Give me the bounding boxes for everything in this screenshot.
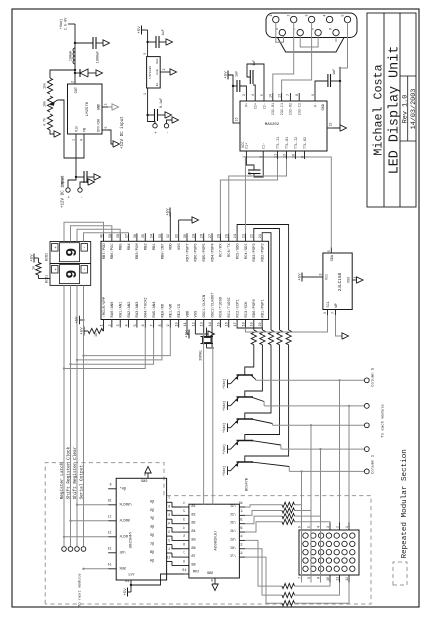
- transistor Q3 PNP column driver: [237, 418, 254, 420]
- svg-text:/3C: /3C: [230, 521, 236, 526]
- svg-text:7: 7: [286, 94, 290, 96]
- svg-text:TTL-O1: TTL-O1: [286, 137, 290, 149]
- svg-text:26: 26: [217, 234, 221, 238]
- wire U4 SDA to U1 pin 23: [245, 157, 331, 248]
- capacitor C8 0.1uF: [148, 114, 155, 116]
- wire column 3 vertical drop: [273, 424, 365, 426]
- svg-text:29: 29: [192, 234, 196, 238]
- transistor Q5 PNP column driver: [237, 461, 254, 463]
- U3 input pin 7 7B: [182, 556, 189, 558]
- U2 pin 8 GND: [147, 473, 149, 478]
- svg-text:4: 4: [183, 526, 185, 530]
- wire U3 output 2C to row resistor: [245, 511, 282, 516]
- ground at U5 GND: [340, 125, 347, 131]
- svg-text:1: 1: [72, 139, 76, 141]
- resistor R14 matrix row 5: [282, 584, 295, 589]
- wire U5 VCC to +5V rail: [228, 75, 234, 123]
- wire U2 QF to U3 3B: [172, 519, 182, 524]
- wire control row 4 to U1 pin 9: [84, 328, 171, 356]
- svg-text:RD4/PSP4: RD4/PSP4: [210, 243, 215, 262]
- LED matrix dot r5c2: [334, 558, 339, 563]
- LED matrix dot r7c5: [350, 533, 355, 538]
- resistor R10 matrix row 1: [282, 502, 295, 507]
- svg-text:QG: QG: [150, 509, 154, 513]
- LED matrix dot r2c3: [311, 550, 316, 555]
- svg-text:COM: COM: [193, 571, 199, 575]
- svg-text:11: 11: [335, 577, 339, 581]
- svg-text:RC2/CCP1: RC2/CCP1: [235, 299, 240, 318]
- svg-text:RB2: RB2: [145, 243, 149, 251]
- U4 pin 5 SDA: [330, 248, 332, 254]
- U1 pin 12 VSS: [194, 320, 196, 328]
- svg-text:3: 3: [259, 156, 263, 158]
- svg-text:/4C: /4C: [230, 529, 236, 534]
- svg-text:9: 9: [329, 28, 333, 30]
- wire control row 2 left run: [70, 285, 72, 546]
- svg-text:Serial Output: Serial Output: [79, 465, 84, 500]
- wire resistor to matrix pin 5: [295, 511, 312, 523]
- svg-text:16: 16: [239, 519, 243, 523]
- resistor R1 base: [251, 330, 256, 345]
- U5 pin 16 VCC: [234, 122, 240, 124]
- power flag +Vadj at Q2: [227, 401, 229, 410]
- svg-text:+Vadj: +Vadj: [59, 19, 64, 30]
- wire wiper to U6 FB: [58, 100, 85, 158]
- wire U6 OUT rail: [74, 24, 76, 76]
- terminal circle to-next-module 3: [75, 547, 80, 552]
- wire column 1 branch to matrix: [301, 471, 303, 582]
- display BCD1 digit box: [60, 265, 80, 284]
- U3 output pin 15 /4C: [239, 531, 245, 533]
- title block rev/date divider: [407, 76, 409, 141]
- U2 pin 13 /OE: [108, 552, 116, 554]
- svg-text:0.1uF: 0.1uF: [160, 98, 164, 108]
- svg-text:/OE: /OE: [120, 550, 126, 555]
- svg-text:18: 18: [239, 502, 243, 506]
- capacitor C5 1000uF: [75, 42, 93, 44]
- wire resistor to matrix pin 3: [295, 521, 331, 524]
- U5 pin 13 232-I1: [281, 93, 283, 101]
- LED matrix dot r6c2: [342, 558, 347, 563]
- svg-text:V-: V-: [314, 103, 318, 107]
- terminal circle Column 3: [364, 423, 369, 428]
- svg-text:5: 5: [168, 514, 170, 518]
- capacitor C1 1uF at U5 C1+/C1-: [246, 159, 254, 170]
- svg-text:GND: GND: [141, 480, 147, 484]
- svg-text:RA1/AN1: RA1/AN1: [119, 301, 124, 318]
- wire U3 right edge run A: [203, 334, 205, 504]
- X1 pin 6: [279, 29, 285, 35]
- svg-text:RC7/RX: RC7/RX: [219, 243, 224, 257]
- wire Q2 collector to column drop: [263, 402, 265, 406]
- U2 output pin 1 QB: [167, 552, 172, 554]
- matrix pin 11 left: [339, 575, 341, 583]
- U3 input pin 6 6B: [182, 548, 189, 550]
- svg-text:RD1/PSP1: RD1/PSP1: [260, 299, 265, 318]
- shift register U2 74HC595 body: [116, 478, 166, 580]
- svg-text:RB4: RB4: [128, 243, 132, 251]
- wire Q2 base to resistor: [245, 345, 263, 397]
- svg-text:/6C: /6C: [230, 546, 236, 551]
- transistor Q4 PNP column driver: [237, 440, 254, 442]
- svg-text:Com: Com: [155, 69, 159, 75]
- svg-text:10: 10: [326, 577, 330, 581]
- wire R2 to U1 pin 19: [254, 328, 263, 331]
- LED matrix dot r5c5: [334, 533, 339, 538]
- svg-text:4B: 4B: [191, 530, 195, 534]
- LED matrix dot r5c4: [334, 541, 339, 546]
- LED matrix dot r5c1: [334, 566, 339, 571]
- U6 pin 1 Vin: [75, 134, 77, 142]
- resistor R7 1k display supply: [36, 262, 41, 275]
- svg-text:9: 9: [316, 577, 320, 579]
- svg-text:1: 1: [242, 156, 246, 158]
- svg-text:To each module: To each module: [381, 404, 386, 438]
- svg-text:RC4/SDI: RC4/SDI: [244, 243, 249, 259]
- U3 input pin 2 2B: [182, 514, 189, 516]
- power flag +5V at U7 out: [141, 26, 143, 35]
- U1 pin 29 RD6/PSP6: [194, 233, 196, 241]
- X1 pin 8: [315, 29, 321, 35]
- svg-text:2: 2: [287, 14, 291, 16]
- svg-text:RD0/PSP0: RD0/PSP0: [252, 299, 257, 318]
- svg-text:232-I2: 232-I2: [299, 103, 303, 115]
- wire U3 output 1C to row resistor: [245, 505, 282, 507]
- svg-text:C1-: C1-: [263, 143, 267, 149]
- wire X1 pin2 to U5 232-O1: [273, 22, 294, 93]
- svg-text:1uF: 1uF: [253, 60, 257, 66]
- svg-text:+5V: +5V: [124, 588, 128, 596]
- svg-text:12: 12: [192, 322, 196, 326]
- wire display data row 1 to U1 pin 40: [64, 222, 104, 241]
- LED matrix DIS1 5x7 body: [299, 530, 359, 575]
- U5 pin 4 C2+: [254, 93, 256, 101]
- U5 pin 2 V+: [245, 93, 247, 101]
- wire control row 3 to U1 pin 8: [77, 328, 162, 360]
- svg-text:RB6/PGC: RB6/PGC: [110, 243, 115, 260]
- power label +Vadj output: [68, 23, 75, 25]
- svg-text:GND: GND: [207, 572, 213, 576]
- terminal circle to-next-module 1: [62, 547, 67, 552]
- matrix pin 3 right: [329, 523, 331, 531]
- U3 output pin 16 /3C: [239, 523, 245, 525]
- wire column 5 vertical drop: [256, 379, 365, 381]
- resistor R2 base: [260, 330, 265, 345]
- svg-text:8B: 8B: [191, 563, 195, 567]
- svg-text:4: 4: [125, 324, 129, 326]
- wire 1k to +5V flag: [37, 258, 39, 262]
- wire X1 link pin1 to pin6: [276, 22, 284, 42]
- ground at U1 VSS pin 31: [178, 220, 180, 233]
- resistor R12 matrix row 3: [282, 514, 295, 519]
- svg-text:QC: QC: [150, 543, 154, 547]
- matrix pin 7 left: [301, 575, 303, 583]
- terminal +12V minus 78L05: [164, 124, 168, 128]
- LED matrix dot r6c5: [342, 533, 347, 538]
- svg-text:3: 3: [117, 324, 121, 326]
- X1 pin 5: [344, 16, 350, 22]
- svg-text:18: 18: [242, 322, 246, 326]
- svg-text:RA4/T0CKI: RA4/T0CKI: [144, 297, 149, 318]
- svg-text:13: 13: [108, 546, 112, 550]
- svg-text:+5V: +5V: [298, 273, 302, 281]
- ground at U2 GND: [145, 467, 151, 474]
- power flag +5V at U2 VCC: [130, 586, 132, 593]
- svg-text:VSS: VSS: [195, 310, 199, 318]
- svg-text:17: 17: [239, 510, 243, 514]
- svg-text:Vin: Vin: [74, 126, 79, 132]
- svg-text:1000uF: 1000uF: [97, 51, 101, 63]
- svg-text:15: 15: [166, 556, 170, 560]
- U2 pin 14 SER: [108, 568, 116, 570]
- svg-text:TTL-I2: TTL-I2: [295, 137, 299, 149]
- U5 pin 1 C1+: [245, 151, 247, 159]
- matrix pin 10 left: [329, 575, 331, 583]
- U5 pin 3 C1-: [262, 151, 264, 159]
- svg-text:Rev 1.0: Rev 1.0: [402, 95, 410, 124]
- U1 pin 20 RD1/PSP1: [261, 320, 263, 328]
- U1 pin 22 RD3/PSP3: [253, 233, 255, 241]
- wire control row 1 to U1 pin 6: [64, 328, 145, 369]
- svg-text:QH*: QH*: [120, 486, 126, 491]
- svg-text:RB3/PGM: RB3/PGM: [135, 243, 140, 260]
- terminal +12V plus LM2576: [66, 188, 70, 192]
- U1 pin 21 RD2/PSP2: [261, 233, 263, 241]
- wire U2 QC to U3 6B: [172, 545, 182, 549]
- svg-text:12: 12: [239, 552, 243, 556]
- svg-text:16: 16: [226, 322, 230, 326]
- U5 pin 15 GND: [327, 127, 333, 129]
- svg-text:+12V DC input: +12V DC input: [61, 175, 66, 208]
- wire column 5 branch to matrix: [339, 380, 341, 522]
- capacitor C4 1uF at U5 V-: [315, 81, 328, 93]
- power flag +Vadj at Q3: [227, 423, 229, 432]
- svg-text:19: 19: [251, 322, 255, 326]
- wire X1 pin3 to U5 232-I1: [282, 22, 312, 93]
- svg-text:7B: 7B: [191, 555, 195, 559]
- power flag +5V at MCLR pullup: [83, 327, 85, 336]
- svg-text:-: -: [83, 268, 88, 271]
- U3 input pin 1 1B: [182, 506, 189, 508]
- svg-text:11: 11: [184, 322, 188, 326]
- terminal +12V minus LM2576: [78, 188, 82, 192]
- svg-text:SRCLK: SRCLK: [119, 519, 130, 523]
- wire U3 right edge run B: [212, 348, 214, 504]
- wire X1 pin9 stub: [335, 36, 337, 42]
- U5 pin 12 TTL-O1: [286, 151, 288, 159]
- svg-text:RD7/PSP7: RD7/PSP7: [185, 243, 190, 261]
- svg-text:1: 1: [269, 14, 273, 16]
- U1 pin 25 RC6/TX: [228, 233, 230, 241]
- svg-text:VSS: VSS: [178, 243, 182, 251]
- U1 pin 19 RD0/PSP0: [253, 320, 255, 328]
- svg-text:ULN2803A: ULN2803A: [215, 531, 219, 551]
- wire minus to ground 78L05: [167, 120, 173, 124]
- U2 output pin 5 QF: [167, 518, 172, 520]
- svg-text:OUT: OUT: [75, 87, 79, 93]
- wire Q4 collector to column drop: [280, 445, 282, 449]
- wire divider to output rail: [50, 70, 75, 78]
- svg-text:1: 1: [100, 324, 104, 326]
- U3 input pin 8 8B: [182, 564, 189, 566]
- svg-text:7: 7: [151, 324, 155, 326]
- wire U3 output 6C to row resistor: [245, 549, 282, 595]
- svg-text:15: 15: [217, 322, 221, 326]
- svg-text:13: 13: [201, 322, 205, 326]
- X1 pin 1: [273, 16, 279, 22]
- U3 output pin 14 /5C: [239, 539, 245, 541]
- resistor R5 base: [286, 330, 291, 345]
- svg-text:1: 1: [168, 548, 170, 552]
- svg-text:LM2576: LM2576: [86, 101, 90, 116]
- svg-text:1: 1: [183, 501, 185, 505]
- display BCD2 plus box: [52, 244, 59, 252]
- svg-text:C2+: C2+: [255, 103, 259, 109]
- svg-text:RD2/PSP2: RD2/PSP2: [260, 243, 265, 262]
- U3 output pin 17 /2C: [239, 514, 245, 516]
- svg-text:2: 2: [168, 539, 170, 543]
- svg-text:V+: V+: [246, 103, 250, 107]
- LED matrix dot r4c2: [326, 558, 331, 563]
- svg-text:3: 3: [305, 14, 309, 16]
- svg-text:3: 3: [326, 526, 330, 528]
- LED matrix dot r1c1: [303, 566, 308, 571]
- U1 pin 11 VDD: [186, 320, 188, 328]
- LED matrix dot r7c4: [350, 541, 355, 546]
- inductor L1 100uH: [73, 48, 75, 64]
- power flag +5V at U1 VDD pin 32: [169, 212, 171, 233]
- wire Q5 collector to column bus: [251, 462, 289, 467]
- LED matrix dot r1c4: [303, 541, 308, 546]
- power flag +5V displays: [33, 254, 35, 263]
- U6 pin 5 OFF/ON: [102, 129, 108, 131]
- terminal circle to-next-module 4: [81, 547, 86, 552]
- svg-text:14: 14: [108, 562, 112, 566]
- svg-text:BCD2: BCD2: [46, 253, 50, 261]
- wire resistor to matrix pin 4: [295, 516, 321, 522]
- U5 pin 9 TTL-O2: [304, 151, 306, 159]
- U6 pin 3 GND: [102, 106, 108, 108]
- svg-text:22: 22: [251, 234, 255, 238]
- resistor R16 matrix row 7: [282, 601, 295, 606]
- svg-text:6: 6: [142, 324, 146, 326]
- svg-text:33: 33: [159, 234, 163, 238]
- wire U4 WP to ground: [336, 315, 343, 336]
- svg-text:/2C: /2C: [230, 512, 236, 517]
- power flag +Vadj at Q5: [227, 466, 229, 475]
- U2 output pin 3 QD: [167, 535, 172, 537]
- wire U2 QH to U3 1B: [172, 502, 182, 507]
- wire column 2 branch to matrix: [320, 449, 322, 582]
- U1 pin 4 RA2/AN2: [128, 320, 130, 328]
- svg-text:20MHz: 20MHz: [200, 350, 204, 361]
- wire control row 4 branch to U2: [84, 568, 109, 570]
- U1 pin 8 RE0/RD: [161, 320, 163, 328]
- U3 input pin 5 5B: [182, 539, 189, 541]
- svg-text:RD3/PSP3: RD3/PSP3: [252, 243, 257, 262]
- title block cell divider left: [400, 140, 416, 142]
- svg-text:VDD: VDD: [186, 310, 190, 318]
- wire resistor to matrix pin 12: [295, 583, 350, 604]
- svg-text:2.5-9V: 2.5-9V: [65, 17, 69, 31]
- wire R1 to U1 pin 17: [237, 328, 254, 331]
- svg-text:37: 37: [125, 234, 129, 238]
- LED matrix dot r6c3: [342, 550, 347, 555]
- svg-text:RD5/PSP5: RD5/PSP5: [202, 243, 207, 262]
- title block cell divider right: [400, 75, 416, 77]
- svg-text:31: 31: [176, 234, 180, 238]
- svg-text:2B: 2B: [191, 513, 195, 517]
- U4 pin 6 SCL: [327, 310, 329, 316]
- svg-text:RC5/SDO: RC5/SDO: [235, 243, 240, 260]
- svg-text:6: 6: [311, 94, 315, 96]
- svg-text:30: 30: [184, 234, 188, 238]
- capacitor C7 1uF: [148, 41, 156, 43]
- svg-text:3: 3: [104, 104, 108, 106]
- wire resistor to matrix pin 11: [295, 583, 340, 596]
- U1 pin 28 RD5/PSP5: [203, 233, 205, 241]
- wire column 4 branch to matrix: [348, 406, 350, 523]
- svg-text:9: 9: [211, 580, 213, 584]
- wire U2 QG to U3 2B: [172, 511, 182, 516]
- power flag +5V on display supply row: [80, 319, 84, 321]
- display BCD2 digit box: [60, 243, 80, 262]
- wire display data row 4 to U1 pin 37: [84, 233, 129, 242]
- ground at U7 Com: [166, 71, 170, 73]
- LED matrix dot r3c2: [318, 558, 323, 563]
- svg-text:17: 17: [234, 322, 238, 326]
- terminal circle Column 5: [364, 378, 369, 383]
- wire control row 2 to U1 pin 7: [71, 328, 154, 365]
- svg-text:14: 14: [269, 94, 273, 98]
- svg-text:15k: 15k: [43, 83, 47, 89]
- svg-text:16: 16: [235, 118, 239, 122]
- svg-text:QF: QF: [150, 517, 154, 521]
- LED matrix dot r4c1: [326, 566, 331, 571]
- LED matrix dot r7c3: [350, 550, 355, 555]
- U2 pin 16 VCC: [130, 580, 132, 586]
- matrix pin 4 right: [320, 523, 322, 531]
- U1 pin 24 RC5/SDO: [236, 233, 238, 241]
- display block divider: [50, 263, 91, 265]
- svg-text:8: 8: [295, 94, 299, 96]
- svg-text:40: 40: [100, 234, 104, 238]
- wire U7 In to input: [147, 96, 149, 115]
- ground at C7: [166, 39, 173, 45]
- svg-text:RA5/AN4: RA5/AN4: [152, 301, 157, 318]
- wire Q2 collector to column bus: [251, 397, 264, 402]
- wire control row 3 branch to U2: [77, 504, 108, 506]
- svg-text:11: 11: [273, 154, 277, 158]
- wire U5 GND run: [333, 68, 340, 128]
- svg-text:10: 10: [182, 569, 186, 573]
- wire U6 Vin to +12V input: [68, 142, 76, 188]
- U6 pin 4 FB: [83, 134, 85, 142]
- LED matrix dot r1c5: [303, 533, 308, 538]
- U1 pin 13 OSC1/CLKIN: [203, 320, 205, 328]
- svg-text:4: 4: [168, 522, 170, 526]
- svg-text:7: 7: [331, 312, 335, 314]
- connector X1 DB9 shell skirt: [278, 38, 345, 53]
- wire control row 4 left run: [83, 285, 85, 546]
- U1 pin 7 RA5/AN4: [153, 320, 155, 328]
- svg-text:TTL-O2: TTL-O2: [304, 137, 308, 149]
- svg-text:RB7/PGD: RB7/PGD: [102, 243, 107, 260]
- svg-text:-: -: [83, 246, 88, 249]
- U1 pin 5 RA3/AN3: [136, 320, 138, 328]
- svg-text:4: 4: [80, 139, 84, 141]
- svg-text:10: 10: [108, 498, 112, 502]
